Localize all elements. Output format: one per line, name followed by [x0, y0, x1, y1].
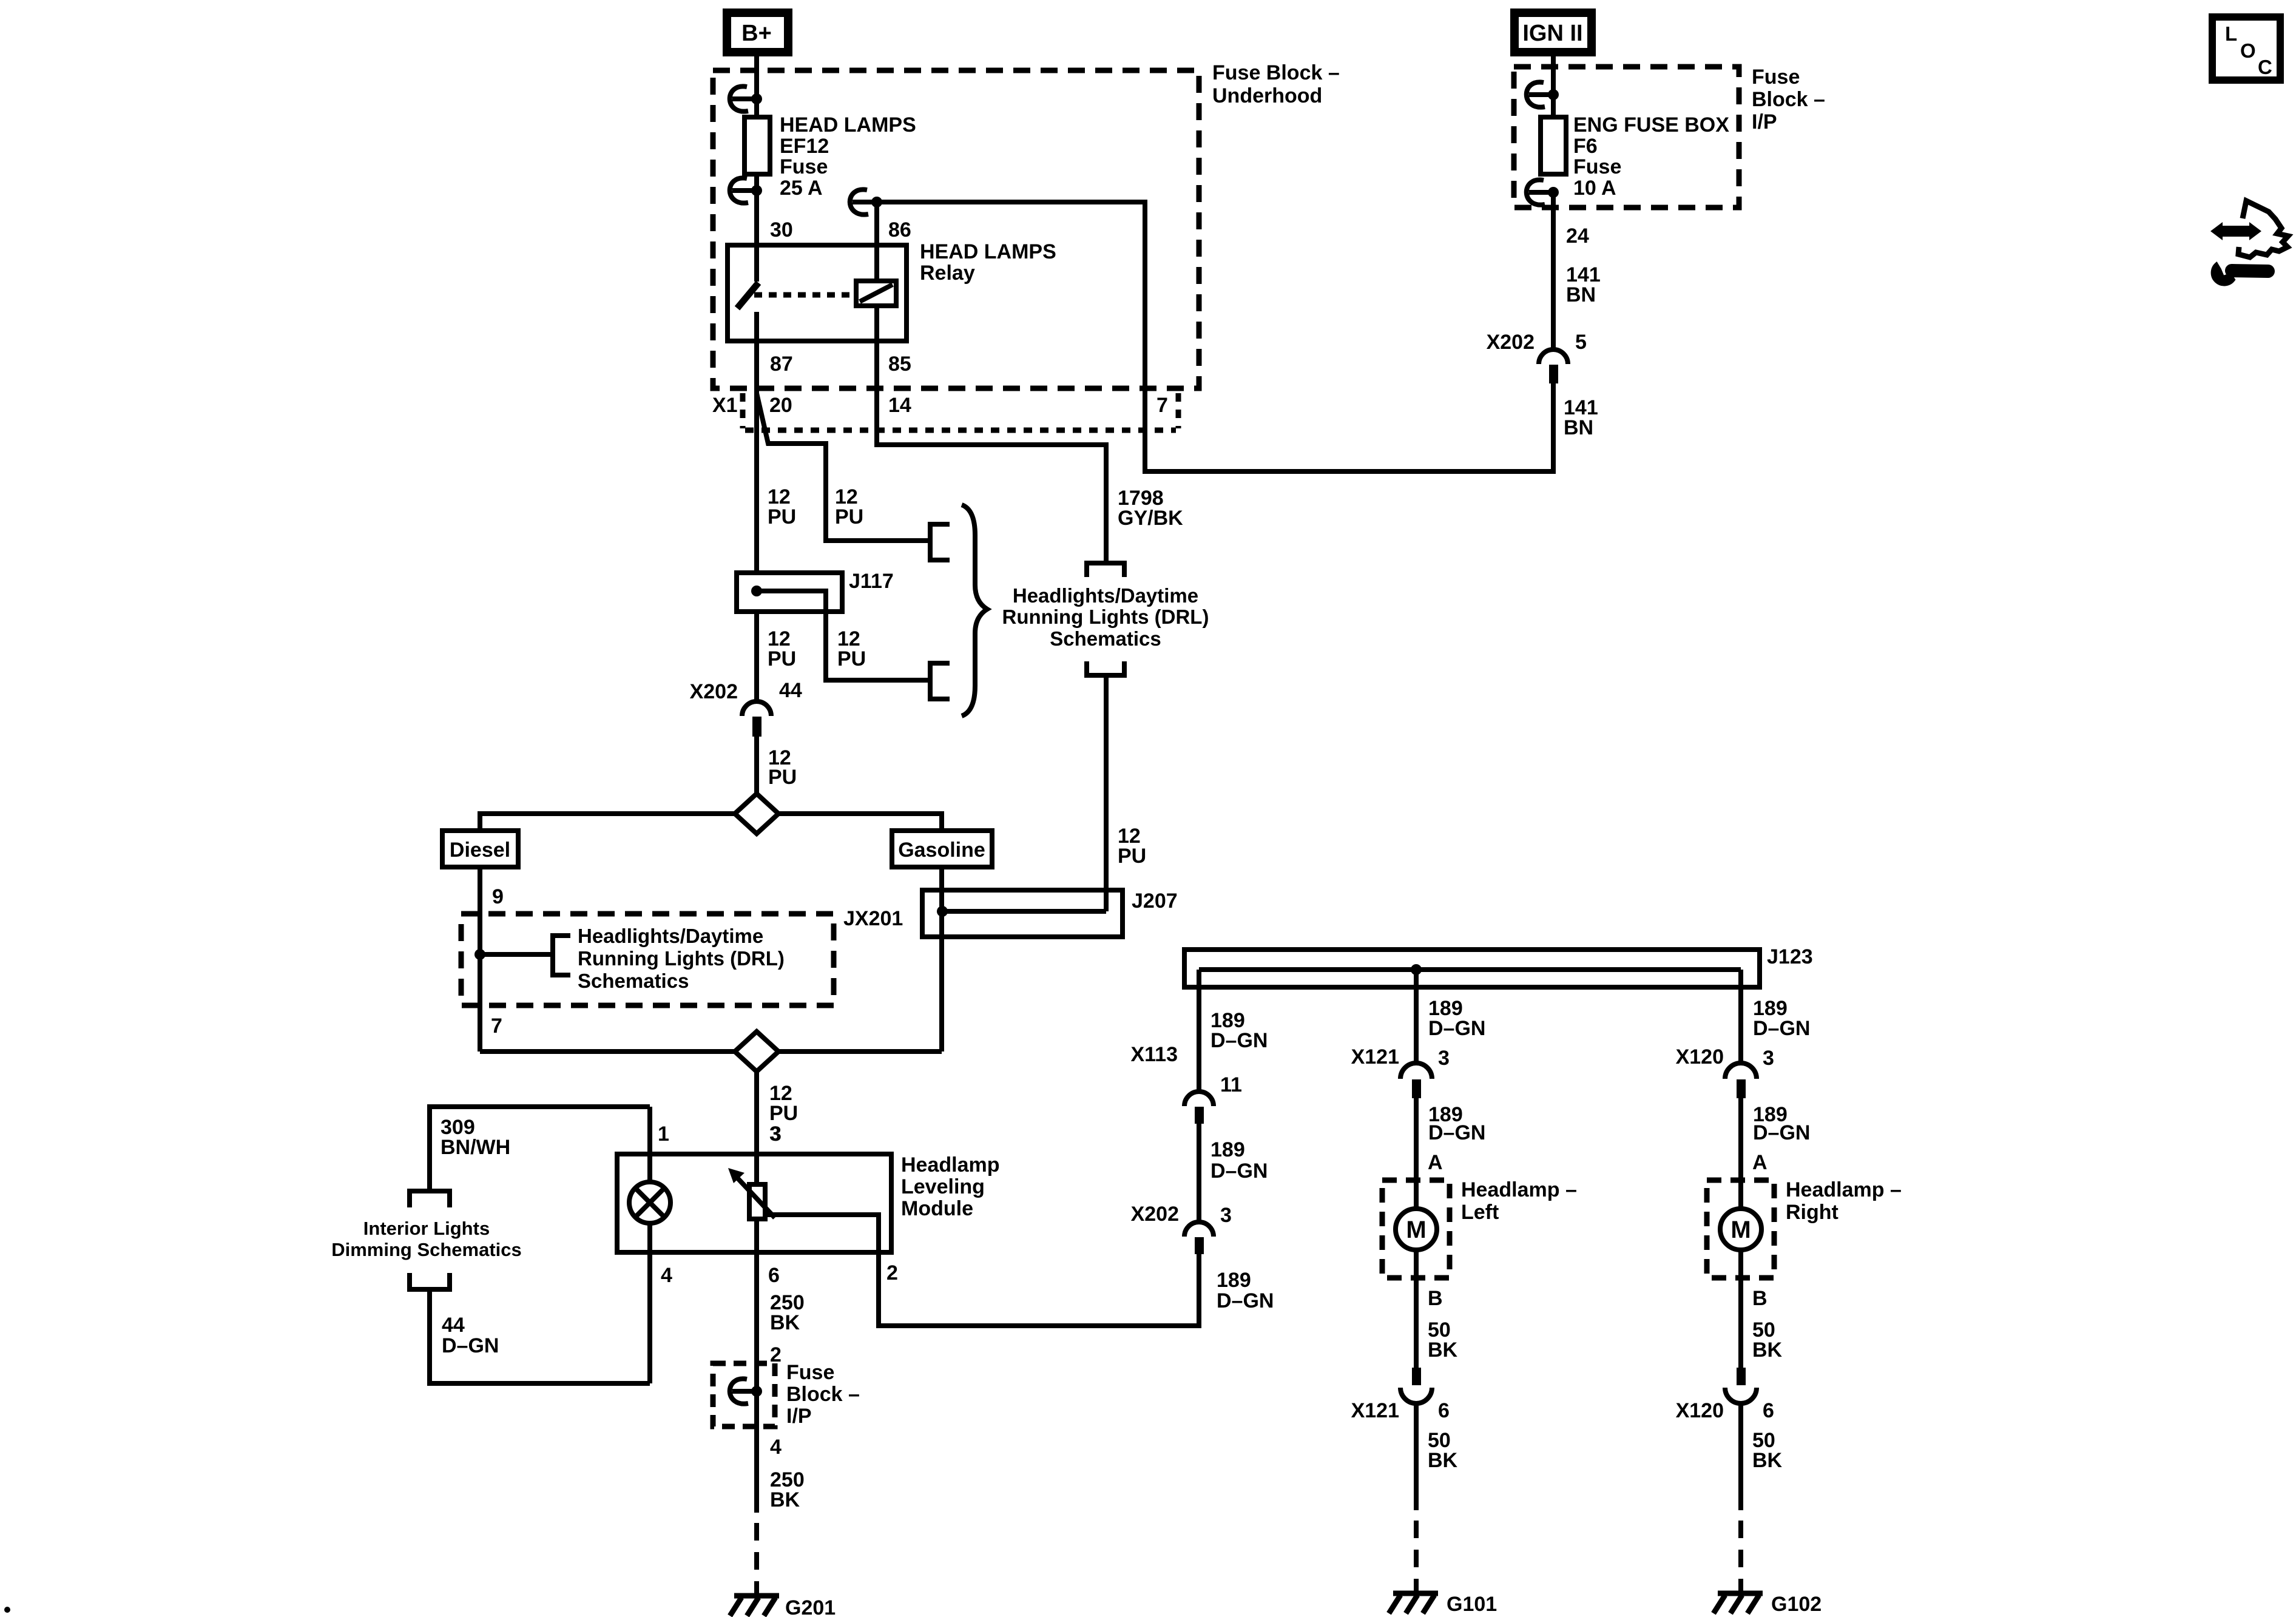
connector X1 left end stub: [740, 393, 746, 428]
wire lower row Gasoline side: [778, 1049, 942, 1054]
label 12 PU (DRL feed): [1118, 825, 1146, 868]
relay coil box: [856, 281, 896, 306]
splice J123 node dot: [1411, 964, 1422, 975]
wire I/P to ground lead: [754, 1426, 759, 1513]
svg-text:X202: X202: [690, 680, 738, 703]
label 189 D-GN (X120 lower): [1753, 1103, 1810, 1144]
svg-text:BK: BK: [1752, 1338, 1783, 1362]
svg-text:BN/WH: BN/WH: [441, 1136, 510, 1159]
svg-text:87: 87: [770, 353, 793, 376]
service icon outline: [2238, 201, 2288, 257]
svg-text:Dimming Schematics: Dimming Schematics: [331, 1239, 522, 1260]
connector X121 pin 3: [1400, 1063, 1432, 1098]
svg-text:11: 11: [1220, 1073, 1242, 1096]
node fuel-option diamond upper: [735, 794, 778, 834]
svg-text:6: 6: [768, 1264, 780, 1287]
ground lead dashed G201: [754, 1523, 759, 1596]
wire pin 1 into module: [647, 1107, 652, 1183]
fuse clip upper EF12: [730, 86, 762, 111]
svg-text:BK: BK: [1428, 1338, 1458, 1362]
svg-text:JX201: JX201: [843, 907, 903, 930]
svg-text:I/P: I/P: [786, 1405, 812, 1428]
svg-text:HEAD LAMPS: HEAD LAMPS: [780, 113, 916, 137]
wire diamond to module pin 3: [754, 1072, 759, 1154]
svg-text:EF12: EF12: [780, 135, 829, 158]
wire pin 3 into potentiometer: [754, 1154, 759, 1184]
wire motor right to pin B: [1738, 1250, 1743, 1368]
fuse block underhood dashed box: [713, 70, 1199, 388]
label HEAD LAMPS Relay: [920, 240, 1056, 285]
wire X1 pin 7 vertical: [1143, 200, 1147, 471]
svg-text:Block –: Block –: [786, 1383, 860, 1406]
svg-text:D–GN: D–GN: [1428, 1017, 1485, 1040]
label 12 PU (left lower): [768, 627, 796, 670]
wire interior lights bottom link: [430, 1289, 650, 1383]
svg-text:PU: PU: [769, 1102, 798, 1125]
svg-text:A: A: [1752, 1151, 1768, 1174]
svg-text:7: 7: [491, 1014, 502, 1038]
node fuel-option diamond lower: [735, 1031, 778, 1072]
svg-text:Running Lights (DRL): Running Lights (DRL): [1002, 606, 1209, 628]
ground lead dashed G102: [1738, 1521, 1743, 1593]
node Diesel box: [442, 831, 518, 867]
svg-text:2: 2: [770, 1343, 782, 1366]
svg-text:25 A: 25 A: [780, 177, 823, 200]
svg-text:24: 24: [1566, 224, 1589, 248]
svg-text:Headlamp: Headlamp: [901, 1153, 1000, 1176]
svg-text:Block –: Block –: [1752, 88, 1825, 111]
splice pack JX201 dashed box: [461, 914, 834, 1005]
svg-text:10 A: 10 A: [1573, 177, 1616, 200]
svg-text:Left: Left: [1461, 1201, 1499, 1224]
service icon double arrow: [2210, 222, 2261, 240]
label 189 D-GN (X121 upper): [1428, 997, 1485, 1040]
svg-text:D–GN: D–GN: [1753, 1121, 1810, 1144]
relay HEAD LAMPS box: [728, 245, 907, 341]
svg-text:20: 20: [769, 394, 792, 417]
fuse block I/P dashed box (top right): [1514, 67, 1739, 208]
svg-text:Fuse: Fuse: [1752, 66, 1800, 89]
splice J123 box: [1184, 950, 1760, 987]
svg-text:J207: J207: [1132, 890, 1178, 913]
svg-text:Schematics: Schematics: [1050, 627, 1161, 650]
svg-text:9: 9: [492, 885, 504, 908]
label Fuse Block - I/P: [1752, 66, 1825, 133]
potentiometer box: [749, 1184, 765, 1219]
svg-text:3: 3: [1438, 1047, 1450, 1070]
svg-text:Relay: Relay: [920, 262, 975, 285]
connector bracket JX201: [553, 936, 570, 975]
wire lower row Diesel side: [480, 1049, 735, 1054]
svg-text:189: 189: [1210, 1138, 1245, 1161]
svg-text:D–GN: D–GN: [1753, 1017, 1810, 1040]
splice J117 box: [737, 573, 842, 612]
svg-text:F6: F6: [1573, 135, 1598, 158]
svg-text:PU: PU: [1118, 845, 1146, 868]
svg-text:B+: B+: [741, 21, 772, 46]
connector bracket lower (12 PU branch): [930, 663, 950, 699]
label 141 BN (below X202-5): [1564, 396, 1598, 439]
wire 86 node to X1 pin 7 (horizontal): [877, 200, 1145, 204]
wire JX201 branch to bracket: [480, 952, 553, 957]
svg-text:PU: PU: [768, 505, 796, 528]
wire 86 node to relay pin 86: [874, 202, 879, 245]
svg-text:PU: PU: [768, 766, 797, 789]
fuse block I/P small dashed box: [713, 1363, 775, 1426]
label 44 D-GN: [442, 1314, 499, 1357]
label 12 PU (left upper): [768, 485, 796, 528]
svg-text:BN: BN: [1566, 283, 1596, 306]
relay linkage dashed: [754, 292, 856, 298]
wire relay 85 through X1-14 to 1798: [877, 341, 1106, 561]
label 12 PU (right lower): [837, 627, 866, 670]
svg-text:6: 6: [1763, 1399, 1774, 1422]
ground G101: [1389, 1593, 1438, 1613]
svg-text:Fuse: Fuse: [786, 1361, 834, 1384]
svg-text:Fuse Block –: Fuse Block –: [1212, 61, 1340, 84]
service icon wrench: [2212, 263, 2268, 285]
svg-text:ENG FUSE BOX: ENG FUSE BOX: [1573, 113, 1729, 137]
svg-text:X120: X120: [1676, 1045, 1724, 1068]
label ENG FUSE BOX F6 Fuse 10 A: [1573, 113, 1729, 200]
svg-text:Running Lights (DRL): Running Lights (DRL): [578, 947, 785, 970]
svg-text:Schematics: Schematics: [578, 970, 689, 992]
svg-text:X202: X202: [1487, 331, 1535, 354]
svg-text:Module: Module: [901, 1197, 973, 1220]
label 50 BK (right upper): [1752, 1318, 1783, 1362]
connector X202 pin 3: [1184, 1222, 1214, 1254]
relay coil clip at 86 node: [850, 189, 882, 214]
wire up to X202 pin 5: [1551, 383, 1556, 474]
svg-text:30: 30: [770, 218, 793, 241]
label 12 PU (right upper): [835, 485, 863, 528]
label 189 D-GN (X120 upper): [1753, 997, 1810, 1040]
wire B+ to fuse EF12: [754, 52, 759, 117]
svg-text:HEAD LAMPS: HEAD LAMPS: [920, 240, 1056, 263]
connector X120 pin 3: [1725, 1063, 1757, 1098]
svg-text:Interior Lights: Interior Lights: [363, 1218, 490, 1239]
svg-text:C: C: [2258, 56, 2272, 78]
label HEAD LAMPS EF12 Fuse 25 A: [780, 113, 916, 200]
svg-text:A: A: [1428, 1151, 1443, 1174]
svg-text:J123: J123: [1767, 945, 1813, 968]
relay pin 87 stub: [754, 312, 759, 341]
svg-text:BK: BK: [770, 1488, 800, 1511]
splice J123 internal bus: [1199, 967, 1741, 972]
svg-text:44: 44: [442, 1314, 465, 1337]
fuse EF12 HEAD LAMPS 25A: [745, 117, 770, 174]
relay coil diagonal: [860, 285, 893, 302]
node Gasoline box: [892, 831, 992, 867]
svg-text:IGN II: IGN II: [1522, 21, 1582, 46]
splice J207 node dot: [937, 906, 948, 917]
potentiometer arrow: [728, 1168, 775, 1218]
svg-text:189: 189: [1217, 1269, 1251, 1292]
svg-text:D–GN: D–GN: [1428, 1121, 1485, 1144]
svg-text:X202: X202: [1131, 1203, 1179, 1226]
svg-text:Headlamp –: Headlamp –: [1786, 1178, 1902, 1201]
svg-text:M: M: [1406, 1217, 1426, 1243]
wire X113 to X202-3: [1197, 1124, 1201, 1223]
svg-text:1: 1: [658, 1122, 669, 1146]
off-page connector upper (DRL): [1087, 563, 1124, 577]
connector X1 right end stub: [1176, 393, 1181, 428]
svg-text:Leveling: Leveling: [901, 1175, 985, 1198]
svg-text:44: 44: [779, 679, 802, 702]
label 50 BK (left upper): [1428, 1318, 1458, 1362]
legend LOC box: [2212, 17, 2280, 80]
ground G102: [1714, 1593, 1763, 1613]
svg-text:4: 4: [661, 1264, 672, 1287]
svg-text:X113: X113: [1130, 1043, 1178, 1066]
label 12 PU (module feed): [769, 1082, 798, 1125]
connector X120 pin 6 (male pin + cup): [1725, 1368, 1757, 1403]
connector X113 pin 11: [1184, 1092, 1214, 1124]
svg-text:4: 4: [770, 1436, 782, 1459]
wire J117 branch to lower bracket: [757, 591, 930, 680]
svg-text:BK: BK: [770, 1311, 800, 1334]
svg-text:3: 3: [1220, 1204, 1232, 1227]
connector X121 pin 6 (male pin + cup): [1400, 1368, 1432, 1403]
wire J123 to X120 headlamp right: [1738, 970, 1743, 1064]
wire X120-3 to headlamp right: [1738, 1098, 1743, 1210]
brace right: [962, 505, 987, 716]
wire F6 to IGN II: [1551, 52, 1556, 117]
relay pin 30 stub: [754, 245, 759, 282]
svg-text:GY/BK: GY/BK: [1118, 507, 1183, 530]
clip inside I/P box: [730, 1379, 762, 1403]
svg-text:Gasoline: Gasoline: [898, 839, 985, 862]
wire wiper to pin 2 and to X202-3: [765, 1215, 1199, 1326]
wire DRL to splice J207: [1104, 675, 1109, 911]
fuse clip lower EF12: [730, 178, 762, 203]
svg-text:BN: BN: [1564, 416, 1593, 439]
ground G201: [730, 1596, 779, 1616]
svg-text:D–GN: D–GN: [1210, 1029, 1268, 1052]
wire J123 to X121 headlamp left: [1414, 970, 1419, 1064]
wire branch diagonal at pin 20: [757, 393, 930, 541]
off-page connector lower (DRL): [1087, 661, 1124, 675]
wire Gasoline down through J207: [939, 867, 944, 1052]
svg-text:G201: G201: [785, 1596, 836, 1617]
wire X121-3 to headlamp left: [1414, 1098, 1419, 1210]
wire lamp to pin 4: [647, 1223, 652, 1383]
motor M left: [1396, 1209, 1437, 1250]
svg-text:14: 14: [888, 394, 911, 417]
label 189 D-GN (X121 lower): [1428, 1103, 1485, 1144]
wire relay 87 through X1-20 down to J117: [754, 341, 759, 573]
label 50 BK (left lower): [1428, 1429, 1458, 1472]
svg-text:5: 5: [1575, 331, 1587, 354]
page dot bottom left: [4, 1607, 10, 1613]
lamp symbol: [629, 1182, 670, 1223]
svg-text:2: 2: [886, 1261, 898, 1284]
svg-text:86: 86: [888, 218, 911, 241]
motor M right: [1720, 1209, 1761, 1250]
connector bracket upper (12 PU branch): [930, 524, 950, 560]
off-page connector upper (interior lights): [410, 1191, 450, 1207]
svg-text:PU: PU: [837, 647, 866, 670]
wire X120-6 to ground lead: [1738, 1403, 1743, 1510]
svg-text:Right: Right: [1786, 1201, 1838, 1224]
svg-text:X1: X1: [712, 394, 738, 417]
wire fuse EF12 to relay pin 30: [754, 174, 759, 245]
svg-text:6: 6: [1438, 1399, 1450, 1422]
svg-text:B: B: [1428, 1287, 1443, 1310]
svg-text:G101: G101: [1447, 1593, 1497, 1616]
wire to IGN II branch (horizontal 141 BN link): [1143, 469, 1553, 474]
svg-text:BK: BK: [1752, 1449, 1783, 1472]
headlamp right dashed box: [1707, 1180, 1774, 1278]
label Headlamp - Left: [1461, 1178, 1577, 1224]
wire Diesel down through JX201: [478, 867, 482, 1052]
module Headlamp Leveling Module box: [617, 1154, 891, 1252]
svg-text:PU: PU: [835, 505, 863, 528]
svg-text:L: L: [2225, 22, 2237, 45]
label Headlamp - Right: [1786, 1178, 1902, 1224]
svg-text:7: 7: [1156, 394, 1168, 417]
relay switch blade: [737, 283, 758, 308]
relay pin 85 stub: [874, 306, 879, 341]
svg-text:3: 3: [1763, 1047, 1774, 1070]
fuse clip lower F6: [1527, 180, 1559, 204]
label 309 BN/WH: [441, 1116, 510, 1159]
label 250 BK (lower): [770, 1468, 805, 1511]
label Headlights/Daytime Running Lights (DRL) Schematics (center): [1002, 584, 1209, 650]
wire diamond row to Diesel: [480, 814, 735, 831]
svg-text:I/P: I/P: [1752, 110, 1777, 133]
label Fuse Block - Underhood: [1212, 61, 1340, 107]
svg-text:Headlights/Daytime: Headlights/Daytime: [578, 925, 763, 947]
connector X202 pin 5 (female arc + male pin): [1539, 349, 1568, 383]
wire diamond row to Gasoline: [778, 814, 942, 831]
label Headlamp Leveling Module: [901, 1153, 1000, 1220]
splice J117 node dot: [751, 586, 762, 596]
fuse F6 ENG FUSE BOX 10A: [1541, 117, 1566, 174]
label 250 BK (upper): [770, 1291, 805, 1334]
connector X202 pin 44 (female arc + male pin): [742, 701, 771, 737]
relay pin 86 stub: [874, 245, 879, 281]
splice J207 box: [922, 890, 1123, 937]
svg-text:Underhood: Underhood: [1212, 84, 1322, 107]
svg-text:G102: G102: [1771, 1593, 1822, 1616]
svg-text:Fuse: Fuse: [1573, 155, 1621, 178]
ground lead dashed G101: [1414, 1521, 1419, 1593]
svg-text:X121: X121: [1351, 1399, 1399, 1422]
svg-text:M: M: [1730, 1217, 1751, 1243]
wire interior lights top link: [430, 1107, 650, 1189]
label Headlights/Daytime Running Lights (DRL) Schematics (JX201): [578, 925, 785, 992]
label 1798 GY/BK: [1118, 487, 1183, 530]
label 141 BN (above X202-5): [1566, 263, 1601, 306]
svg-text:PU: PU: [768, 647, 796, 670]
svg-text:Diesel: Diesel: [450, 839, 510, 862]
wire module pin 6 to fuse block I/P: [754, 1252, 759, 1426]
svg-text:3: 3: [770, 1122, 782, 1146]
fuse clip upper F6: [1527, 82, 1559, 107]
label Interior Lights Dimming Schematics: [331, 1218, 522, 1260]
headlamp left dashed box: [1382, 1180, 1450, 1278]
svg-text:B: B: [1752, 1287, 1768, 1310]
svg-text:X120: X120: [1676, 1399, 1724, 1422]
off-page connector lower (interior lights): [410, 1273, 450, 1289]
power terminal B+: [727, 13, 788, 52]
svg-text:D–GN: D–GN: [1217, 1289, 1274, 1312]
svg-text:85: 85: [888, 353, 911, 376]
wire X121-6 to ground lead: [1414, 1403, 1419, 1510]
svg-text:X121: X121: [1351, 1045, 1399, 1068]
wire potentiometer to pin 6: [754, 1219, 759, 1252]
svg-text:D–GN: D–GN: [1210, 1160, 1268, 1183]
wire X202-5 up to fuse F6: [1551, 192, 1556, 349]
label 50 BK (right lower): [1752, 1429, 1783, 1472]
wire J123 to X113: [1197, 970, 1201, 1092]
svg-text:Headlamp –: Headlamp –: [1461, 1178, 1577, 1201]
wire J117 down to X202-44: [754, 612, 759, 701]
svg-text:D–GN: D–GN: [442, 1334, 499, 1357]
svg-text:J117: J117: [849, 570, 894, 593]
splice J207 internal line: [942, 909, 1106, 914]
svg-text:O: O: [2240, 39, 2256, 62]
label 12 PU (below X202-44): [768, 746, 797, 789]
svg-text:Headlights/Daytime: Headlights/Daytime: [1013, 584, 1198, 607]
connector X1 row fine dashed line: [745, 428, 1176, 433]
label 189 D-GN (X113 upper): [1210, 1009, 1268, 1052]
wire motor left to pin B: [1414, 1250, 1419, 1368]
label 189 D-GN (between X113 and X202): [1210, 1138, 1268, 1183]
svg-text:BK: BK: [1428, 1449, 1458, 1472]
label Fuse Block - I/P (bottom): [786, 1361, 860, 1428]
splice JX201 node dot: [474, 949, 485, 960]
svg-text:Fuse: Fuse: [780, 155, 828, 178]
wire X202-44 to fuel diamond: [754, 737, 759, 796]
power terminal IGN II: [1514, 13, 1592, 52]
label 189 D-GN (below X202-3): [1217, 1269, 1274, 1312]
